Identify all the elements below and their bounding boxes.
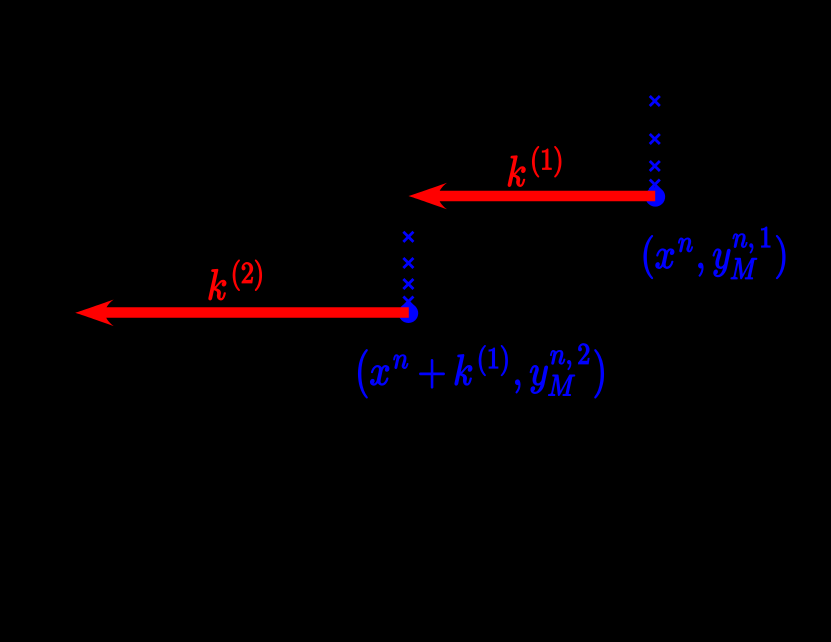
iterate marks column 2 (blue x markers above point (x^n+k^(1), y_M^n,2)) bbox=[403, 232, 413, 307]
label (x^n, y_M^n,1) bbox=[644, 227, 785, 279]
label k^(1) bbox=[508, 147, 561, 187]
arrow k(1) head bbox=[409, 183, 448, 210]
label (x^n+k^(1), y_M^n,2) bbox=[359, 344, 604, 398]
arrow k(2) shaft bbox=[102, 307, 409, 318]
point dot (x^n, y_M^n,1) bbox=[645, 187, 665, 207]
arrow k(2) head bbox=[75, 300, 114, 327]
point dot (x^n+k^(1), y_M^n,2) bbox=[399, 303, 419, 323]
arrow k(1) shaft bbox=[436, 191, 656, 202]
iterate marks column 1 (blue x markers above point (x^n, y_M^n,1)) bbox=[650, 96, 660, 190]
label k^(2) bbox=[209, 260, 262, 300]
